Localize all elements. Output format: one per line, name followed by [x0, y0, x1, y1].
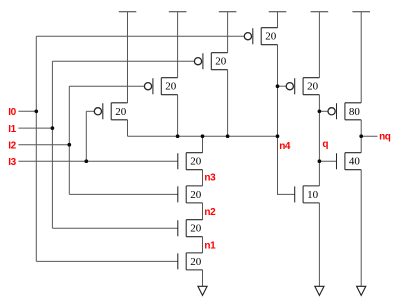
wire M1-M2 node n3 — [202, 170, 204, 186]
pmos P5 (W=20) — [286, 78, 319, 95]
wire M4 source to ground — [202, 270, 204, 286]
svg-text:I3: I3 — [8, 157, 16, 168]
net label n3 — [204, 172, 216, 183]
wire riser I3 — [85, 111, 87, 161]
value label P6 80 — [349, 106, 361, 118]
wire I0 to M4 gate — [36, 260, 178, 262]
wire P3 drain — [227, 70, 229, 137]
junction bus stack — [201, 134, 205, 138]
wire input I3 to M1 gate — [18, 160, 177, 162]
wire P4 drain n4 column — [277, 45, 279, 137]
vdd supply V2 — [169, 11, 187, 13]
wire M6 source to ground — [360, 170, 362, 287]
net label n2 — [204, 207, 216, 218]
value label P5 20 — [307, 81, 319, 93]
vdd supply V1 — [119, 11, 137, 13]
svg-text:n4: n4 — [279, 141, 291, 152]
value label P2 20 — [165, 81, 177, 93]
svg-text:40: 40 — [349, 156, 361, 168]
junction n4 P5 gate — [276, 84, 280, 88]
net label nq — [379, 131, 391, 142]
wire nq stub — [361, 135, 377, 137]
ground symbol left — [198, 286, 207, 295]
wire M5 source to ground — [318, 203, 320, 286]
wire M3-M4 node n1 — [202, 237, 204, 253]
pmos P6 (W=80) — [328, 103, 361, 120]
wire I1 to M3 gate — [52, 227, 177, 229]
wire q to P6 gate — [319, 110, 328, 112]
vdd supply V3 — [219, 11, 237, 13]
svg-text:q: q — [322, 139, 328, 150]
svg-text:20: 20 — [307, 81, 319, 93]
svg-text:10: 10 — [307, 189, 319, 201]
svg-text:I2: I2 — [8, 141, 16, 152]
svg-text:20: 20 — [190, 223, 202, 235]
svg-text:20: 20 — [265, 31, 277, 43]
wire vdd stem V3 — [227, 12, 229, 53]
wire vdd stem V4 — [277, 12, 279, 28]
vdd supply V5 — [311, 11, 329, 13]
net label I2 — [8, 141, 16, 152]
wire I2 to P2 gate — [69, 85, 144, 87]
vdd supply V6 — [352, 11, 370, 13]
svg-text:20: 20 — [190, 156, 202, 168]
net label n1 — [204, 240, 216, 251]
pmos P3 (W=20) — [194, 53, 227, 70]
value label M2 20 — [190, 189, 202, 201]
svg-text:20: 20 — [190, 256, 202, 268]
nmos M1 (W=20) — [178, 153, 203, 170]
svg-text:20: 20 — [190, 189, 202, 201]
net label n4 — [279, 141, 291, 152]
svg-text:20: 20 — [165, 81, 177, 93]
svg-text:I1: I1 — [8, 124, 16, 135]
svg-text:80: 80 — [349, 106, 361, 118]
nmos M5 (W=10) — [295, 186, 320, 203]
net label q — [322, 139, 328, 150]
wire input I2 — [18, 144, 69, 146]
wire vdd stem V5 — [318, 12, 320, 78]
value label P1 20 — [115, 106, 127, 118]
svg-text:n2: n2 — [204, 207, 216, 218]
wire P6 drain — [360, 120, 362, 136]
wire n4 to P5 gate — [278, 85, 287, 87]
junction node q — [318, 159, 322, 163]
wire input I1 — [18, 127, 52, 129]
wire P2 drain — [177, 95, 179, 137]
svg-text:nq: nq — [379, 131, 391, 142]
value label P4 20 — [265, 31, 277, 43]
junction bus P2 — [176, 134, 180, 138]
junction q P6 gate — [318, 109, 322, 113]
pmos P1 (W=20) — [94, 103, 127, 120]
junction I2 — [67, 143, 71, 147]
value label P3 20 — [215, 56, 227, 68]
svg-text:I0: I0 — [8, 107, 16, 118]
nmos M3 (W=20) — [178, 220, 203, 237]
vdd supply V4 — [269, 11, 287, 13]
wire q to M6 gate — [319, 160, 336, 162]
value label M1 20 — [190, 156, 202, 168]
svg-text:20: 20 — [215, 56, 227, 68]
junction node n4 — [276, 134, 280, 138]
svg-text:n1: n1 — [204, 240, 216, 251]
junction I1 — [51, 126, 55, 130]
wire n4 to M5 gate — [278, 136, 295, 194]
wire M6 drain — [360, 136, 362, 153]
nmos M6 (W=40) — [337, 153, 362, 170]
nmos M2 (W=20) — [178, 186, 203, 203]
wire vdd stem V2 — [177, 12, 179, 78]
value label M6 40 — [349, 156, 361, 168]
junction I0 — [34, 109, 38, 113]
junction node nq — [359, 134, 363, 138]
svg-text:n3: n3 — [204, 172, 216, 183]
wire I2 to M2 gate — [69, 193, 178, 195]
wire P1 drain — [127, 120, 129, 136]
wire riser I1 — [51, 61, 53, 228]
wire bus to M1 drain — [202, 136, 204, 153]
pmos P4 (W=20) — [244, 28, 277, 45]
wire M2-M3 node n2 — [202, 203, 204, 220]
net label I0 — [8, 107, 16, 118]
wire n4 bus — [128, 135, 278, 137]
wire q column P5 drain to M5 drain — [318, 95, 320, 186]
value label M4 20 — [190, 256, 202, 268]
wire I3 to P1 gate — [86, 110, 94, 112]
wire riser I2 — [68, 86, 70, 194]
wire input I0 — [18, 110, 36, 112]
ground symbol right — [357, 286, 366, 295]
nmos M4 (W=20) — [178, 253, 203, 270]
junction I3 — [84, 159, 88, 163]
wire vdd stem V1 — [127, 12, 129, 103]
junction bus P3 — [226, 134, 230, 138]
svg-text:20: 20 — [115, 106, 127, 118]
wire I1 to P3 gate — [52, 60, 194, 62]
net label I1 — [8, 124, 16, 135]
pmos P2 (W=20) — [144, 78, 177, 95]
wire riser I0 — [35, 36, 37, 261]
ground symbol middle — [315, 286, 324, 295]
value label M5 10 — [307, 189, 319, 201]
wire I0 to P4 gate — [36, 35, 244, 37]
net label I3 — [8, 157, 16, 168]
wire vdd stem V6 — [360, 12, 362, 103]
value label M3 20 — [190, 223, 202, 235]
